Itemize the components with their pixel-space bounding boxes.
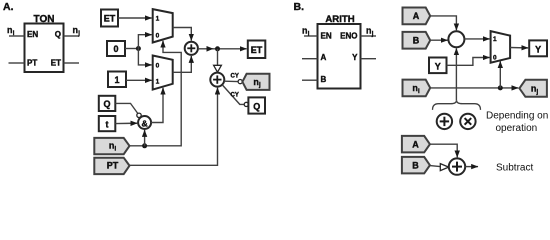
input tag B (subtract example) <box>402 157 430 174</box>
brace (operation group) <box>433 100 481 110</box>
svg-text:A.: A. <box>3 1 14 13</box>
svg-text:ARITH: ARITH <box>325 14 354 25</box>
svg-text:EN: EN <box>321 32 332 41</box>
svg-text:&: & <box>141 118 147 128</box>
function block TON <box>25 24 64 73</box>
op option plus <box>437 114 452 129</box>
pin stub B <box>302 79 318 81</box>
svg-text:CY: CY <box>231 74 239 80</box>
wire B to op circle left <box>430 39 447 41</box>
wire n_i to n_j <box>430 87 518 89</box>
input tag n_i <box>94 138 129 154</box>
svg-text:ENO: ENO <box>340 32 357 41</box>
pin stub Y <box>361 58 377 60</box>
mux M1 <box>153 9 173 42</box>
svg-text:CY: CY <box>231 93 239 99</box>
wire 0 to junction <box>125 48 138 50</box>
wire A to op circle top <box>430 16 456 30</box>
svg-text:1: 1 <box>114 75 119 85</box>
svg-text:Q: Q <box>103 99 110 109</box>
result box Y <box>529 40 547 56</box>
svg-text:A: A <box>412 140 419 150</box>
pin stub ET <box>64 62 80 64</box>
svg-text:EN: EN <box>27 30 38 39</box>
wire ET box to mux M1 input 1 <box>118 17 152 19</box>
node junction (n_i fan-out) <box>142 143 147 148</box>
pin stub Q <box>64 35 80 37</box>
svg-text:t: t <box>106 120 109 130</box>
svg-text:PT: PT <box>107 161 119 171</box>
svg-text:ET: ET <box>104 14 116 24</box>
op circle U2 (operation placeholder) <box>448 31 464 47</box>
adder S3 (subtract) <box>449 158 465 174</box>
svg-text:Y: Y <box>352 53 358 62</box>
pin stub A <box>302 58 318 60</box>
input tag B <box>403 32 431 49</box>
svg-text:B: B <box>413 35 420 45</box>
input tag A <box>403 8 431 25</box>
bubble (negation) <box>244 102 248 106</box>
wire B to negation triangle <box>430 166 440 167</box>
input tag n_i <box>403 80 431 97</box>
node n_j output tag <box>242 74 269 90</box>
result box Q <box>248 97 265 113</box>
svg-text:A: A <box>413 11 420 21</box>
svg-text:B.: B. <box>294 1 305 13</box>
bubble (inverted input) <box>137 113 141 117</box>
svg-text:TON: TON <box>34 14 55 25</box>
svg-text:0: 0 <box>113 44 118 54</box>
svg-text:0: 0 <box>156 33 160 40</box>
svg-text:nj: nj <box>73 25 81 37</box>
output tag n_j <box>519 80 547 97</box>
wire PT to adder S2 bottom <box>130 88 218 166</box>
svg-text:B: B <box>321 75 327 84</box>
wire junction up to mux M1 input 0 <box>138 35 151 49</box>
wire t to AND gate <box>115 122 137 124</box>
wire Q to AND gate (inverted) <box>115 103 139 115</box>
wire S1 output to ET result box <box>198 48 247 50</box>
register box Y (old value) <box>429 58 447 74</box>
wire op circle to mux M3 input 1 <box>464 38 489 40</box>
wire junction up to AND gate <box>144 130 146 146</box>
AND gate U1 <box>138 116 151 129</box>
node junction (0 fan-out) <box>136 46 141 51</box>
wire subtract result out <box>465 166 478 168</box>
svg-text:0: 0 <box>493 55 497 62</box>
pin stub EN <box>9 35 25 37</box>
arrowhead mid-wire <box>207 46 214 52</box>
svg-text:0: 0 <box>156 62 160 69</box>
svg-text:ni: ni <box>7 25 15 37</box>
wire junction down to adder S2 (hollow arrow) <box>217 49 219 66</box>
adder S2 (comparator) <box>210 73 224 87</box>
constant box 0 <box>107 41 125 56</box>
svg-text:ET: ET <box>251 45 263 55</box>
bubble (negation) <box>238 80 242 84</box>
wire AND output to mux M2 select <box>151 88 163 123</box>
wire junction up to mux M3 select <box>499 61 501 88</box>
svg-text:Subtract: Subtract <box>496 163 533 174</box>
wire junction down to mux M2 input 0 <box>138 49 151 65</box>
node junction (n_i fan-out) <box>498 85 503 90</box>
svg-text:operation: operation <box>496 123 538 134</box>
wire A to subtract adder top <box>430 144 457 157</box>
wire mux M2 output to adder S1 bottom <box>173 56 192 72</box>
adder S1 <box>185 42 198 55</box>
pin stub EN <box>304 35 318 37</box>
svg-text:B: B <box>412 161 419 171</box>
svg-text:Y: Y <box>435 61 441 71</box>
svg-text:A: A <box>321 53 327 62</box>
mux M3 <box>491 31 511 63</box>
svg-text:Q: Q <box>55 30 61 39</box>
svg-text:Q: Q <box>253 101 260 111</box>
register box Q (old value) <box>99 96 116 111</box>
wire mux M1 output to adder S1 top <box>173 28 192 41</box>
negation triangle (two's complement) <box>440 164 448 171</box>
pin stub PT <box>9 62 25 64</box>
wire n_i to mux M1 select <box>130 41 182 146</box>
wire 1 to mux M2 input 1 <box>126 79 152 81</box>
svg-text:Y: Y <box>535 44 541 54</box>
node junction (result fan-out) <box>215 46 220 51</box>
mux M2 <box>153 56 173 90</box>
result box ET <box>248 41 265 59</box>
input tag A (subtract example) <box>402 136 430 153</box>
wire mux M3 output to Y result <box>510 47 528 49</box>
svg-text:1: 1 <box>493 36 497 43</box>
svg-text:Depending on: Depending on <box>486 111 548 122</box>
op option times <box>460 114 475 129</box>
constant box 1 <box>108 72 126 88</box>
svg-text:1: 1 <box>156 15 160 22</box>
input tag PT <box>94 158 129 174</box>
pin stub ENO <box>361 35 377 37</box>
wire Y to mux M3 input 0 <box>447 58 490 66</box>
wire S2 carry CY to n_j <box>224 80 238 82</box>
svg-text:1: 1 <box>156 79 160 86</box>
svg-text:PT: PT <box>27 59 37 68</box>
register box ET (old value) <box>101 10 118 27</box>
function block ARITH <box>318 24 361 89</box>
register box t <box>99 116 116 131</box>
svg-text:ET: ET <box>51 59 61 68</box>
wire S2 carry CY to Q result <box>222 85 244 105</box>
wire operation choice into op circle bottom <box>455 48 457 100</box>
